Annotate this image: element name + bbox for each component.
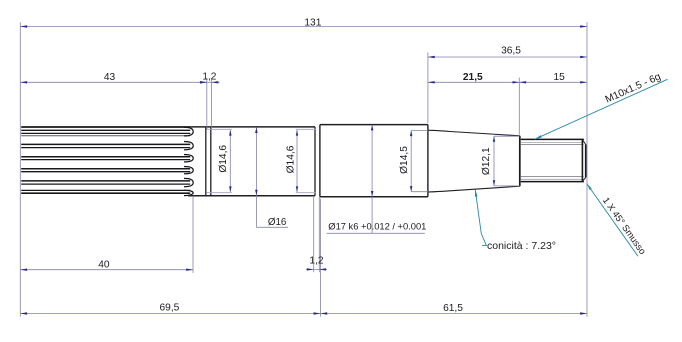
svg-text:Ø14,6: Ø14,6 [218, 145, 229, 173]
svg-text:1,2: 1,2 [202, 71, 216, 82]
svg-text:69,5: 69,5 [159, 302, 179, 313]
svg-text:21,5: 21,5 [463, 72, 483, 83]
svg-text:Ø16: Ø16 [268, 217, 287, 228]
svg-text:36,5: 36,5 [501, 45, 521, 56]
svg-text:Ø12,1: Ø12,1 [481, 147, 492, 175]
svg-text:Ø17 k6 +0.012 / +0.001: Ø17 k6 +0.012 / +0.001 [328, 220, 426, 231]
svg-text:Ø14,6: Ø14,6 [285, 145, 296, 173]
svg-text:61,5: 61,5 [443, 303, 463, 314]
svg-text:40: 40 [98, 259, 110, 270]
svg-text:1,2: 1,2 [309, 255, 323, 266]
svg-text:conicità : 7.23°: conicità : 7.23° [487, 240, 556, 252]
svg-text:15: 15 [554, 72, 566, 83]
svg-text:Ø14,5: Ø14,5 [399, 146, 410, 174]
svg-text:43: 43 [104, 72, 116, 83]
svg-text:131: 131 [304, 17, 321, 28]
